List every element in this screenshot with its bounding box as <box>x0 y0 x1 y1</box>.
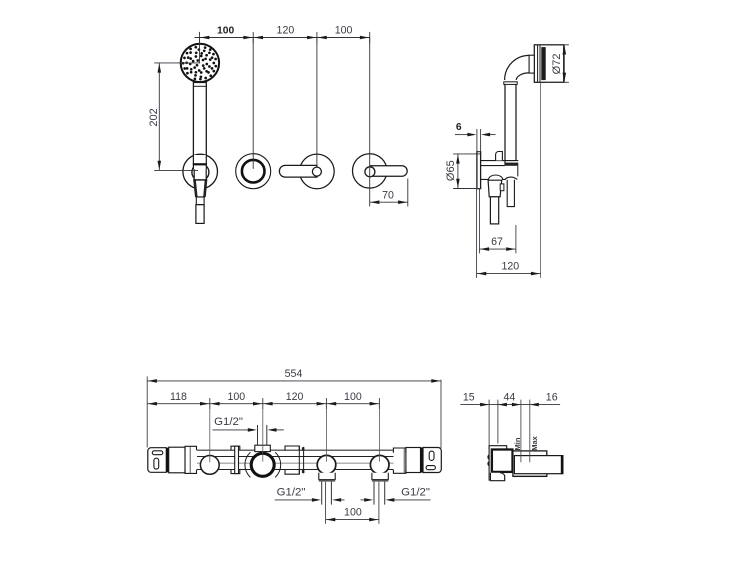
svg-text:202: 202 <box>148 108 160 126</box>
hand shower handle tube <box>193 82 206 165</box>
wall holder inner ring <box>192 164 209 181</box>
right mounting ear <box>423 448 441 473</box>
svg-text:15: 15 <box>463 391 475 403</box>
extension line D (max wall) <box>529 400 531 463</box>
valve port circle 4 <box>370 455 389 474</box>
grip lower tube <box>196 205 204 224</box>
svg-text:120: 120 <box>277 25 295 37</box>
extension line left handle center <box>316 38 318 168</box>
head neck <box>529 55 534 73</box>
valve port circle 1 <box>200 456 219 475</box>
svg-text:100: 100 <box>344 391 362 403</box>
outlet boss below port 4 <box>372 473 388 480</box>
valve rail tube lines <box>197 449 394 451</box>
left handle escutcheon <box>300 154 335 189</box>
holder jaw (dark) <box>505 163 519 166</box>
dimension 100 (outlet spacing) <box>325 482 327 524</box>
svg-text:100: 100 <box>335 25 353 37</box>
elbow outer curve <box>505 55 530 80</box>
svg-text:70: 70 <box>382 189 394 201</box>
svg-text:118: 118 <box>170 391 187 403</box>
right ear slot (horizontal) <box>426 466 435 470</box>
handle collar <box>193 82 206 84</box>
side bracket body (thick) <box>492 450 513 472</box>
valve body sleeve <box>514 456 563 474</box>
extension line C (min wall) <box>520 400 522 463</box>
cone transitions around mixer body <box>245 452 251 477</box>
extension line B <box>497 400 499 444</box>
side wall plate lines <box>488 447 490 480</box>
port centerline 3 <box>325 409 327 461</box>
side bracket top flange <box>489 446 507 449</box>
left handle pivot <box>312 167 321 176</box>
extension line A (plate front) <box>488 400 490 446</box>
svg-text:G1/2": G1/2" <box>401 487 430 499</box>
spout inner ring <box>242 160 265 183</box>
grip side taper <box>488 180 502 197</box>
right mounting plate <box>406 448 421 473</box>
port centerline 4 <box>378 409 380 461</box>
svg-text:120: 120 <box>286 391 304 403</box>
svg-text:Min: Min <box>513 437 522 450</box>
sleeve right end (thick) <box>561 455 563 474</box>
left mounting ear <box>148 448 167 473</box>
outlet boss below port 3 <box>319 473 335 480</box>
hand shower head (front view) <box>181 44 219 82</box>
elbow inner curve <box>516 73 529 80</box>
dimension 202 vertical <box>154 62 200 64</box>
hand shower wall holder outer circle <box>183 154 218 189</box>
svg-text:Ø72: Ø72 <box>551 54 563 75</box>
extension line right handle center <box>369 38 371 207</box>
left ear clamp line <box>166 448 168 473</box>
svg-text:6: 6 <box>456 122 462 133</box>
dimension line 100/120/100 (top row) <box>195 37 370 39</box>
right handle pivot <box>365 167 375 177</box>
wall plate (side) <box>477 152 481 190</box>
upper block bottom line <box>513 475 547 477</box>
hose tube <box>505 84 516 165</box>
svg-text:Ø65: Ø65 <box>445 160 457 181</box>
holder lower ring <box>481 175 517 179</box>
union nut 1 <box>231 446 240 473</box>
right ear slot (vertical) <box>429 451 434 460</box>
mixer centerline <box>262 409 264 461</box>
bracket left lugs <box>487 455 490 465</box>
svg-text:G1/2": G1/2" <box>277 487 306 499</box>
svg-text:100: 100 <box>217 26 234 37</box>
valve body upper block <box>513 451 547 477</box>
left ear slot (vertical) <box>154 458 159 469</box>
grip mid section <box>196 197 204 205</box>
outlet thread pipe 3 <box>321 482 323 505</box>
right handle escutcheon <box>353 154 387 188</box>
holder clamp edge <box>193 163 207 165</box>
svg-text:Max: Max <box>530 435 539 450</box>
right ear clamp line <box>421 448 423 473</box>
grip side tab <box>500 184 504 191</box>
dimension row 118/100/120/100 <box>147 403 380 405</box>
svg-text:G1/2": G1/2" <box>214 416 243 428</box>
left mounting plate <box>169 447 185 473</box>
head centerline <box>540 82 542 278</box>
dimension 6 (plate thickness) <box>455 134 471 136</box>
grip side tube <box>490 197 498 224</box>
dimension line 15/44/16 <box>460 404 560 406</box>
handle through holder <box>193 155 206 169</box>
hand shower grip (upper taper) <box>194 169 206 197</box>
valve port circle 3 <box>317 455 336 474</box>
holder clip bump <box>496 152 503 161</box>
svg-text:120: 120 <box>501 260 519 272</box>
inlet boss above mixer <box>255 445 270 451</box>
left handle lever <box>279 165 317 177</box>
dimension Ø65 <box>453 153 481 155</box>
G1/2 bottom-right leader <box>361 499 365 501</box>
extension line spout center <box>252 38 254 169</box>
bracket lower foot <box>490 473 504 481</box>
spray nozzle strip (dark) <box>541 47 545 80</box>
grip heavy side edges <box>195 180 207 197</box>
svg-text:100: 100 <box>227 391 245 403</box>
holder right edge <box>517 166 519 177</box>
G1/2 top thread pipe <box>257 425 259 445</box>
svg-text:100: 100 <box>344 506 362 518</box>
G1/2 top leader <box>212 429 248 431</box>
outlet thread pipe 4 <box>373 482 375 505</box>
spout outer escutcheon <box>236 154 271 189</box>
holder arm side <box>481 160 519 162</box>
mixer cartridge circle (thick) <box>251 453 274 476</box>
dimension 120 (side) <box>476 189 478 278</box>
dimension 70 <box>407 179 409 207</box>
spray face nozzle dots <box>182 46 217 81</box>
rail below holder <box>507 180 514 207</box>
svg-text:16: 16 <box>546 391 558 403</box>
left end cap flanges <box>185 446 197 473</box>
head face plate lines <box>537 45 539 83</box>
port centerline 1 <box>209 409 211 462</box>
hose collar <box>504 82 517 85</box>
dimension 67 <box>478 189 480 253</box>
left ear slot (horizontal) <box>152 451 163 455</box>
extension line shower head center <box>199 38 201 63</box>
dimension 554 <box>146 376 148 447</box>
shower head side view outer body <box>534 45 563 83</box>
svg-text:67: 67 <box>491 236 503 248</box>
G1/2 bottom-left leader <box>275 499 313 501</box>
svg-text:44: 44 <box>504 391 516 403</box>
dimension Ø72 <box>534 44 569 46</box>
right handle lever <box>370 166 407 176</box>
union nut 2 <box>285 446 299 474</box>
svg-text:554: 554 <box>285 368 303 380</box>
right end cap flanges <box>393 448 406 473</box>
